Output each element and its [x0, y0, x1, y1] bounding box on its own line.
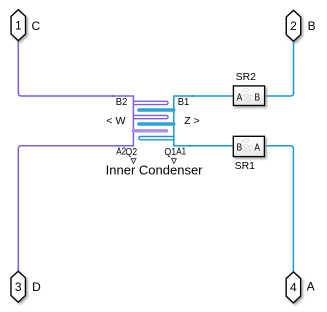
condenser port label A2	[116, 146, 126, 158]
port 1 number	[15, 18, 22, 32]
SR1 mini preview icon	[242, 139, 253, 152]
wire: SR2 A to condenser B1 (cyan)	[174, 95, 234, 97]
svg-text:Q1: Q1	[164, 146, 176, 158]
port 4 label A	[307, 280, 315, 294]
condenser port label W	[106, 115, 125, 127]
svg-text:Inner Condenser: Inner Condenser	[106, 163, 204, 178]
inner condenser: purple solid finger	[133, 129, 166, 132]
svg-text:Q2: Q2	[125, 146, 137, 158]
condenser port label Z	[184, 115, 199, 127]
svg-text:4: 4	[290, 281, 297, 295]
unconnected port marker Q2	[131, 159, 136, 164]
condenser port label B1	[178, 96, 190, 108]
inner condenser: moist-air side spine (cyan)	[173, 95, 175, 146]
port 2 number	[290, 19, 297, 33]
SR1 pin label A	[254, 141, 260, 153]
port 1 hexagon	[11, 10, 25, 41]
svg-text:B: B	[255, 92, 261, 104]
SR2 mini preview icon	[242, 88, 253, 101]
condenser port label A1	[176, 146, 186, 158]
unconnected port marker Q1	[172, 159, 177, 164]
wire: condenser A1 to SR1 B (cyan)	[174, 145, 234, 147]
svg-text:C: C	[32, 19, 41, 33]
block name: Inner Condenser	[106, 163, 204, 178]
subsystem SR1	[233, 136, 264, 156]
block name: SR2	[236, 71, 257, 83]
svg-text:A1: A1	[176, 146, 186, 158]
SR2 pin label A	[237, 92, 243, 104]
inner condenser: cyan solid finger 2	[139, 122, 174, 125]
subsystem SR2	[233, 86, 264, 106]
svg-text:SR1: SR1	[235, 160, 256, 172]
svg-text:< W: < W	[106, 115, 125, 127]
wire D: condenser A2 to port 3 (two-phase, purple)	[18, 146, 133, 271]
condenser port label B2	[116, 96, 128, 108]
port 3 hexagon	[11, 271, 26, 302]
svg-text:B1: B1	[178, 96, 190, 108]
wire A: SR1 to port 4 (cyan)	[265, 146, 294, 272]
svg-text:A: A	[237, 92, 243, 104]
SR1 pin label B	[237, 141, 243, 153]
port 2 hexagon	[286, 10, 301, 41]
inner condenser: purple hairpin tube 2	[133, 115, 168, 118]
svg-text:1: 1	[15, 18, 22, 32]
svg-text:B: B	[237, 141, 243, 153]
wire C: port 1 to condenser B2 (two-phase, purple)	[18, 41, 133, 96]
node A1 junction dot	[189, 145, 191, 147]
svg-text:B: B	[308, 19, 316, 33]
port 4 number	[290, 281, 297, 295]
port 2 label B	[308, 19, 316, 33]
svg-text:B2: B2	[116, 96, 128, 108]
inner condenser: cyan solid finger 1	[139, 108, 174, 111]
condenser port label Q1	[164, 146, 176, 158]
inner condenser: two-phase side spine (purple)	[132, 95, 134, 146]
SR2 pin label B	[255, 92, 261, 104]
svg-text:2: 2	[290, 19, 297, 33]
svg-text:A: A	[307, 280, 315, 294]
block name: SR1	[235, 160, 256, 172]
node B2 junction dot	[112, 95, 114, 97]
svg-text:SR2: SR2	[236, 71, 257, 83]
port 3 label D	[32, 280, 41, 294]
condenser port label Q2	[125, 146, 137, 158]
port 1 label C	[32, 19, 41, 33]
node B1 junction dot	[192, 95, 194, 97]
svg-text:A: A	[254, 141, 260, 153]
inner condenser: cyan hairpin tube	[139, 137, 174, 140]
inner condenser: purple hairpin tube 1	[133, 101, 168, 104]
port 4 hexagon	[286, 272, 301, 303]
svg-text:D: D	[32, 280, 41, 294]
wire B: port 2 to SR2 (moist air, cyan)	[265, 41, 293, 96]
svg-text:3: 3	[15, 280, 22, 294]
port 3 number	[15, 280, 22, 294]
svg-text:Z >: Z >	[184, 115, 199, 127]
